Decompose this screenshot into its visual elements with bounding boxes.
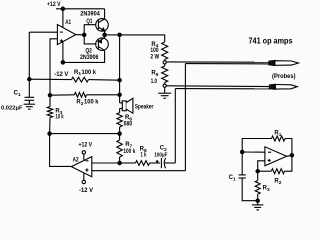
- wire A2 noninverting input: [92, 170, 186, 172]
- node inset plus junction: [256, 170, 259, 173]
- wire R6 bottom lead: [119, 127, 121, 134]
- resistor R5: [162, 66, 168, 83]
- probe 2: [269, 84, 297, 89]
- svg-text:-12 V: -12 V: [54, 72, 68, 78]
- capacitor C1: [25, 79, 35, 104]
- node R7 top junction: [118, 132, 121, 135]
- wire R3 inset bottom: [257, 194, 259, 201]
- op-amp A2: [71, 151, 92, 184]
- svg-text:0.022μF: 0.022μF: [1, 106, 23, 112]
- resistor R7: [117, 140, 122, 157]
- resistor R1 inset: [272, 136, 285, 141]
- node A1 plus node: [48, 94, 51, 97]
- wire rail to R4: [120, 35, 165, 42]
- wire inset output loop: [285, 139, 292, 172]
- svg-text:+12 V: +12 V: [47, 2, 61, 8]
- svg-text:2N3906: 2N3906: [80, 55, 99, 61]
- svg-text:10 k: 10 k: [55, 115, 64, 121]
- svg-text:100 k: 100 k: [84, 100, 99, 106]
- resistor R2 inset: [271, 169, 284, 174]
- resistor R3: [47, 107, 52, 118]
- wire A1 output: [76, 34, 84, 36]
- ground R5: [158, 93, 171, 98]
- svg-text:100μF: 100μF: [154, 152, 167, 158]
- node C1 junction: [28, 78, 31, 81]
- node R1 rail junction: [118, 79, 121, 82]
- wire A2 feed horizontal: [50, 133, 120, 135]
- svg-text:Q2: Q2: [85, 49, 92, 55]
- node probe 1 terminal: [163, 61, 166, 64]
- wire R8 left: [120, 162, 136, 164]
- svg-text:Q1: Q1: [86, 19, 92, 25]
- wire base bus: [84, 25, 98, 44]
- op-amp U1 inset: [265, 147, 287, 166]
- wire probe1 cable bottom: [185, 63, 269, 65]
- svg-text:(Probes): (Probes): [272, 74, 296, 80]
- wire A1 V- lead: [62, 42, 64, 63]
- wire R7 top lead: [119, 134, 121, 140]
- wire emitters to rail: [105, 34, 120, 36]
- ground C1: [24, 104, 35, 109]
- wire R5 bottom lead: [164, 83, 166, 85]
- node emitter junction: [103, 33, 106, 36]
- svg-text:2N3904: 2N3904: [80, 12, 100, 18]
- capacitor C1 inset: [239, 175, 246, 178]
- wire inset plus input: [258, 161, 265, 171]
- wire R1 right: [89, 79, 120, 82]
- wire R2 right: [87, 94, 120, 96]
- capacitor C2: [156, 158, 176, 168]
- wire R8 right: [150, 162, 160, 164]
- wire R2 to node: [258, 170, 272, 172]
- svg-text:2 W: 2 W: [150, 54, 159, 60]
- wire inset output lead: [287, 155, 292, 158]
- node inset minus junction: [241, 150, 244, 153]
- resistor R8: [136, 161, 150, 166]
- wire R7 bottom lead: [119, 157, 121, 163]
- wire inset top rail: [242, 139, 271, 153]
- wire R2 left: [50, 94, 74, 96]
- speaker: [120, 98, 133, 113]
- wire probe tap vertical B: [184, 64, 186, 171]
- resistor R1: [72, 77, 89, 82]
- resistor R4: [162, 42, 168, 60]
- svg-text:680: 680: [124, 122, 133, 128]
- wire probe tap vertical A: [174, 89, 176, 163]
- wire -12V to Q2 collector: [63, 51, 105, 63]
- svg-text:A1: A1: [65, 20, 71, 26]
- svg-text:A2: A2: [73, 157, 80, 163]
- svg-text:Speaker: Speaker: [135, 105, 154, 111]
- wire R3 inset top: [257, 171, 259, 180]
- node rail top junction: [118, 33, 121, 36]
- svg-text:100: 100: [150, 48, 159, 54]
- node inset output: [290, 154, 293, 157]
- wire probe2 cable bottom: [175, 88, 270, 90]
- node inset ground junction: [256, 199, 259, 202]
- wire inset bottom rail: [242, 178, 258, 201]
- resistor R2: [74, 92, 86, 97]
- wire probe1 cable top: [166, 61, 269, 63]
- node A2 feed junction: [48, 132, 51, 135]
- wire R4 bottom lead: [164, 60, 166, 61]
- wire main rail lower: [119, 109, 121, 113]
- wire inset left rail: [241, 152, 243, 175]
- node +12V junction: [61, 7, 64, 10]
- wire R5 top lead: [164, 64, 166, 66]
- resistor R3 inset: [255, 181, 260, 195]
- svg-text:741 op amps: 741 op amps: [249, 36, 293, 45]
- wire inset minus input: [242, 151, 265, 153]
- svg-text:1 k: 1 k: [141, 152, 147, 158]
- wire A1 V+ lead: [62, 9, 64, 28]
- wire A2 output riser: [50, 134, 72, 167]
- svg-text:-12 V: -12 V: [79, 188, 93, 194]
- svg-text:1.0: 1.0: [151, 79, 158, 85]
- svg-text:+12 V: +12 V: [79, 143, 93, 149]
- resistor R6: [117, 113, 122, 127]
- wire R3 top: [49, 95, 51, 106]
- wire R3 bottom: [49, 118, 51, 134]
- wire main rail upper: [119, 35, 121, 103]
- wire A2 inverting input: [92, 162, 120, 164]
- svg-text:100 k: 100 k: [123, 149, 135, 155]
- wire ground lead R5: [164, 87, 166, 93]
- wire inset ground lead: [257, 201, 259, 205]
- wire A1 inverting input: [29, 31, 57, 33]
- wire left feedback rail: [28, 32, 30, 79]
- wire +12V rail: [56, 8, 105, 10]
- probe 1: [269, 61, 299, 66]
- node probe 2 terminal: [163, 84, 166, 87]
- svg-text:100 k: 100 k: [82, 70, 97, 76]
- ground inset: [252, 205, 264, 210]
- node -12V junction: [61, 61, 64, 64]
- op-amp A1: [57, 25, 75, 45]
- wire probe2 cable top: [166, 85, 270, 88]
- node A1 output junction: [83, 33, 86, 36]
- node R8 junction: [118, 161, 121, 164]
- transistor Q1 2N3904: [96, 9, 109, 35]
- node R2 rail junction: [118, 93, 121, 96]
- transistor Q2 2N3906: [96, 35, 109, 51]
- wire R1 left: [29, 78, 71, 80]
- wire A1 noninverting input: [50, 39, 57, 95]
